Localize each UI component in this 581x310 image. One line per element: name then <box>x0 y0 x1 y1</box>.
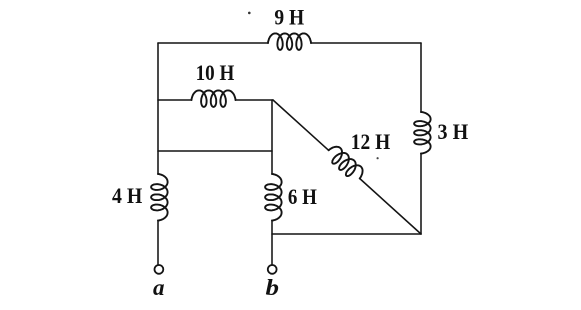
wire middle vertical upper <box>271 100 273 174</box>
svg-text:6 H: 6 H <box>288 184 317 209</box>
wire top-left segment <box>158 42 268 44</box>
inductor L3 3 H <box>414 112 431 154</box>
wire right vertical lower <box>420 154 422 235</box>
terminal a <box>155 265 164 274</box>
wire diagonal upper segment <box>273 100 329 150</box>
svg-text:12 H: 12 H <box>351 129 390 154</box>
wire diagonal lower segment <box>360 179 421 235</box>
svg-text:3 H: 3 H <box>438 119 469 144</box>
wire right vertical upper <box>420 43 422 112</box>
wire terminal-b lead <box>271 221 273 265</box>
inductor L4 4 H <box>151 174 168 221</box>
svg-text:4 H: 4 H <box>112 183 142 208</box>
svg-text:9 H: 9 H <box>274 5 304 30</box>
wire middle row right stub <box>236 99 274 101</box>
inductor L6 6 H <box>265 174 282 221</box>
inductor L12 12 H <box>329 147 363 179</box>
wire left vertical upper <box>157 43 159 174</box>
svg-text:a: a <box>153 275 165 300</box>
svg-text:10 H: 10 H <box>196 60 235 85</box>
terminal b <box>268 265 277 274</box>
inductor L9 9 H <box>268 33 311 50</box>
wire terminal-a lead <box>157 221 159 265</box>
wire middle row left stub <box>158 99 192 101</box>
inductor L10 10 H <box>192 90 236 107</box>
wire top-right segment <box>311 42 421 44</box>
wire lower horizontal tie <box>158 150 272 152</box>
wire bottom horizontal <box>272 233 421 235</box>
svg-text:b: b <box>266 275 280 300</box>
